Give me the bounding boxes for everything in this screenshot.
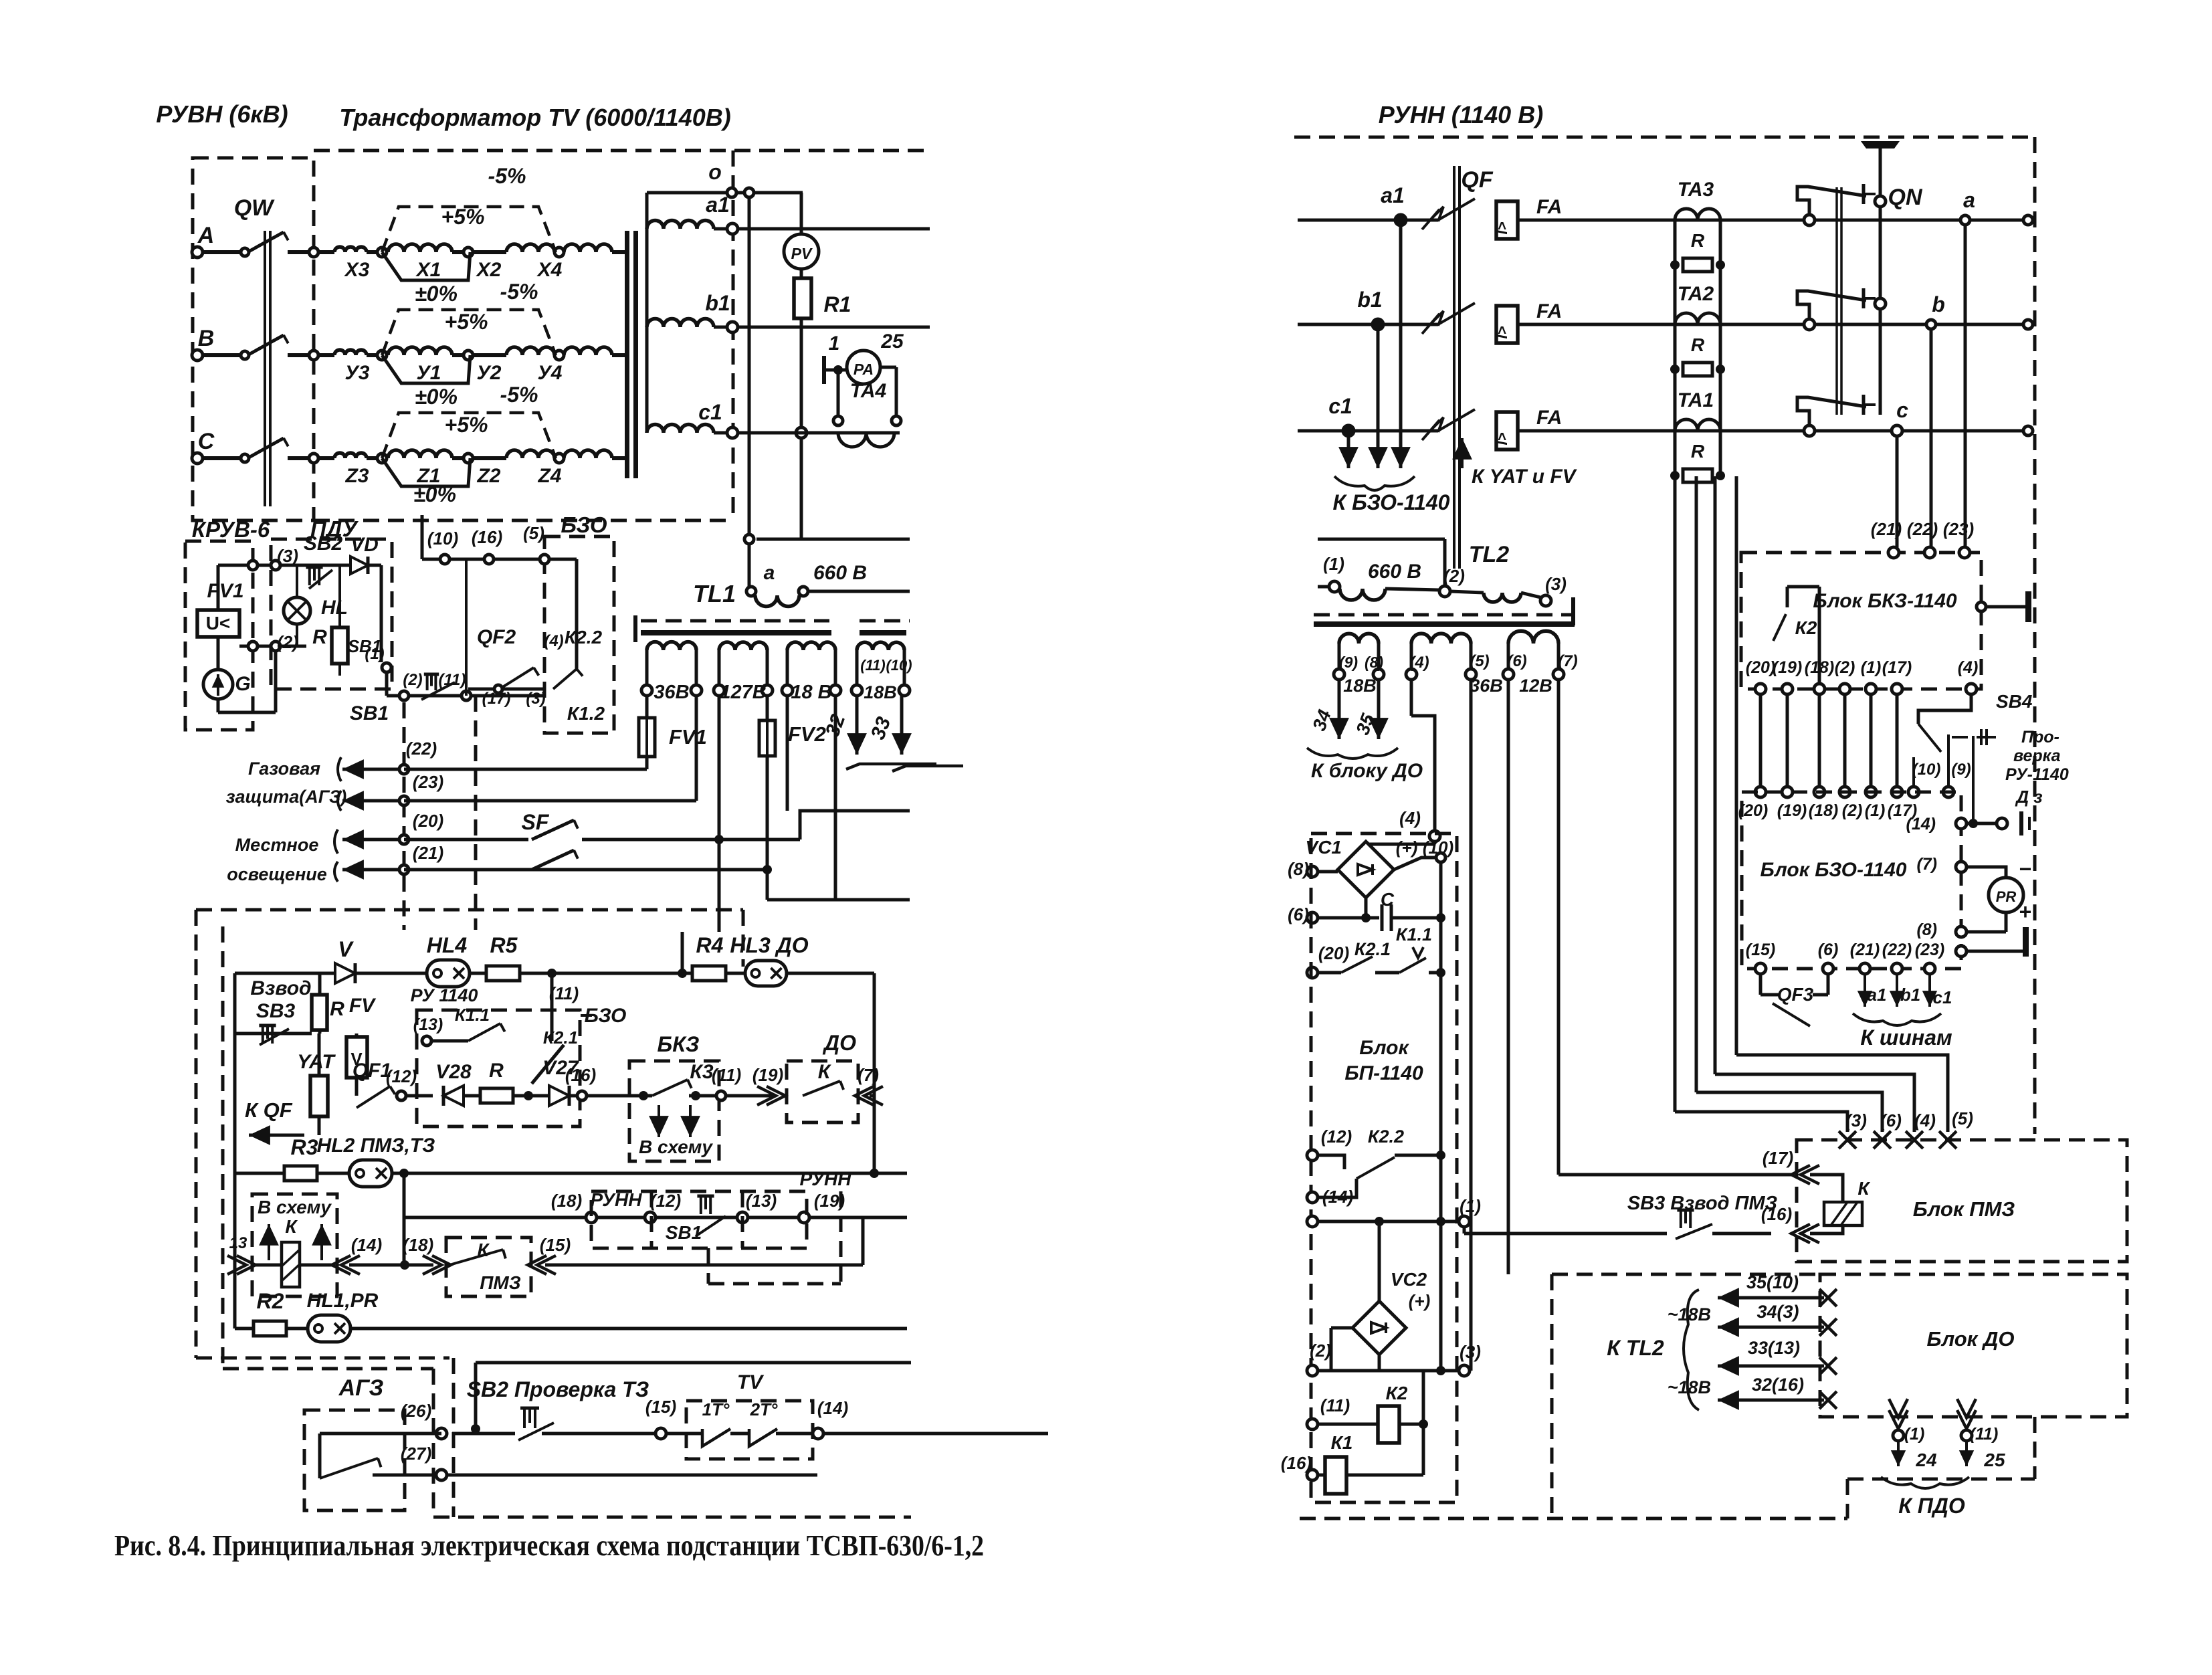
svg-text:25: 25: [880, 330, 904, 353]
svg-text:24: 24: [1915, 1450, 1937, 1470]
svg-text:1: 1: [829, 332, 840, 355]
svg-text:(6): (6): [1818, 941, 1839, 959]
svg-text:SF: SF: [522, 810, 550, 834]
svg-text:К1.2: К1.2: [567, 703, 605, 724]
svg-text:TL2: TL2: [1469, 542, 1510, 567]
svg-text:К блоку ДО: К блоку ДО: [1311, 760, 1423, 782]
svg-text:(21): (21): [413, 843, 443, 863]
svg-text:(1): (1): [365, 645, 384, 663]
svg-text:Блок ДО: Блок ДО: [1927, 1327, 2015, 1351]
svg-text:а1: а1: [1868, 985, 1887, 1005]
svg-text:Местное: Местное: [235, 835, 319, 855]
svg-text:(10): (10): [1912, 761, 1941, 779]
svg-text:c: c: [1896, 398, 1908, 422]
svg-text:РУ 1140: РУ 1140: [411, 985, 478, 1005]
svg-text:(7): (7): [858, 1065, 879, 1085]
svg-text:(14): (14): [351, 1235, 382, 1255]
svg-text:B: B: [198, 326, 215, 351]
svg-text:(5): (5): [523, 523, 544, 543]
svg-text:БП-1140: БП-1140: [1344, 1062, 1423, 1084]
svg-text:33(13): 33(13): [1748, 1338, 1800, 1358]
svg-text:(5): (5): [1952, 1108, 1973, 1128]
svg-text:(1): (1): [1323, 554, 1344, 574]
svg-text:18 В: 18 В: [791, 682, 831, 703]
svg-text:(22): (22): [1882, 941, 1912, 959]
svg-text:FA: FA: [1536, 407, 1562, 429]
svg-text:(18): (18): [551, 1191, 582, 1211]
svg-text:(5): (5): [1470, 652, 1489, 670]
svg-text:12В: 12В: [1519, 676, 1552, 696]
svg-text:К1: К1: [1331, 1432, 1353, 1453]
svg-text:b1: b1: [1357, 288, 1382, 312]
svg-text:(11): (11): [860, 657, 886, 674]
svg-text:(21): (21): [1850, 941, 1880, 959]
svg-text:(9): (9): [1339, 654, 1358, 671]
svg-text:Газовая: Газовая: [248, 759, 320, 779]
svg-text:К: К: [285, 1216, 298, 1237]
svg-text:(4): (4): [544, 632, 563, 650]
svg-text:TA1: TA1: [1678, 389, 1714, 411]
svg-text:(3): (3): [1545, 574, 1567, 594]
svg-text:К3: К3: [690, 1061, 713, 1083]
svg-text:(11): (11): [1970, 1425, 1999, 1444]
svg-text:-5%: -5%: [488, 164, 526, 188]
svg-text:a1: a1: [706, 193, 730, 217]
svg-text:К2: К2: [1795, 617, 1817, 638]
svg-text:освещение: освещение: [227, 864, 327, 884]
svg-text:(12): (12): [1321, 1126, 1352, 1147]
svg-text:I>: I>: [1494, 326, 1510, 338]
svg-text:К QF: К QF: [245, 1098, 293, 1122]
svg-text:(+): (+): [1396, 837, 1418, 858]
svg-text:FV2: FV2: [788, 722, 826, 746]
svg-text:(13): (13): [746, 1191, 777, 1211]
svg-text:(27): (27): [401, 1444, 431, 1464]
svg-text:У1: У1: [416, 362, 441, 384]
svg-text:R1: R1: [824, 292, 851, 316]
svg-text:а: а: [764, 562, 775, 584]
svg-text:(2): (2): [403, 671, 422, 689]
svg-text:(2): (2): [1310, 1341, 1331, 1361]
svg-text:(16): (16): [1281, 1453, 1312, 1473]
svg-text:b1: b1: [1900, 985, 1920, 1005]
svg-text:HL4: HL4: [427, 933, 468, 957]
svg-text:Z2: Z2: [476, 465, 500, 487]
svg-text:РУВН (6кВ): РУВН (6кВ): [156, 100, 288, 128]
svg-text:QW: QW: [234, 195, 275, 221]
svg-text:К YAT и FV: К YAT и FV: [1472, 466, 1578, 488]
svg-text:V: V: [338, 937, 354, 961]
svg-text:Блок БЗО-1140: Блок БЗО-1140: [1761, 859, 1907, 881]
svg-text:ПМЗ: ПМЗ: [480, 1272, 520, 1293]
svg-text:TA4: TA4: [850, 380, 887, 402]
svg-text:верка: верка: [2013, 747, 2061, 765]
svg-text:Взвод: Взвод: [250, 977, 311, 999]
svg-text:К1.1: К1.1: [455, 1005, 490, 1025]
svg-text:АГЗ: АГЗ: [338, 1375, 384, 1401]
svg-text:БКЗ: БКЗ: [658, 1032, 700, 1056]
svg-text:РУ-1140: РУ-1140: [2005, 765, 2069, 784]
svg-text:c1: c1: [698, 400, 722, 424]
svg-text:PA: PA: [853, 361, 874, 378]
svg-text:SB1: SB1: [666, 1222, 702, 1243]
svg-text:(26): (26): [401, 1401, 431, 1421]
svg-text:(1): (1): [1865, 801, 1886, 820]
svg-text:КРУВ-6: КРУВ-6: [192, 517, 270, 542]
svg-text:SB1: SB1: [350, 702, 389, 724]
svg-text:X3: X3: [344, 259, 370, 281]
svg-text:18В: 18В: [864, 682, 897, 702]
svg-text:(1): (1): [1460, 1196, 1481, 1216]
svg-text:X4: X4: [536, 259, 563, 281]
svg-text:−: −: [2019, 857, 2031, 881]
svg-text:(7): (7): [1916, 855, 1937, 874]
svg-text:1Т°: 1Т°: [702, 1399, 730, 1419]
svg-text:V28: V28: [435, 1061, 472, 1083]
svg-text:FV1: FV1: [669, 725, 707, 749]
svg-text:(20): (20): [413, 811, 443, 831]
svg-text:(1): (1): [1904, 1425, 1925, 1444]
svg-text:(10): (10): [886, 657, 912, 674]
svg-text:a: a: [1963, 188, 1975, 212]
svg-text:В схему: В схему: [639, 1137, 713, 1157]
svg-text:A: A: [197, 223, 215, 248]
svg-text:QF3: QF3: [1777, 984, 1814, 1005]
svg-text:(12): (12): [386, 1066, 417, 1086]
svg-text:(18): (18): [1805, 658, 1834, 677]
svg-text:(20): (20): [1738, 801, 1768, 820]
svg-text:(12): (12): [650, 1191, 681, 1211]
svg-text:РУНН: РУНН: [799, 1169, 851, 1189]
svg-text:(10): (10): [427, 528, 458, 549]
svg-text:TA2: TA2: [1678, 283, 1714, 305]
svg-text:(11): (11): [439, 671, 466, 689]
svg-text:ДО: ДО: [822, 1031, 856, 1055]
svg-text:(+): (+): [1409, 1291, 1431, 1311]
svg-text:VC2: VC2: [1391, 1269, 1427, 1290]
svg-text:R: R: [1691, 441, 1705, 462]
svg-text:РУНН (1140 В): РУНН (1140 В): [1379, 101, 1543, 128]
svg-text:(11): (11): [1320, 1395, 1350, 1415]
svg-text:FV1: FV1: [207, 580, 243, 602]
svg-text:HL2 ПМЗ,ТЗ: HL2 ПМЗ,ТЗ: [317, 1135, 435, 1157]
svg-text:(16): (16): [565, 1065, 596, 1085]
svg-text:К БЗО-1140: К БЗО-1140: [1333, 490, 1450, 514]
svg-text:I>: I>: [1494, 221, 1510, 234]
svg-text:TL1: TL1: [693, 580, 736, 607]
svg-text:защита(АГЗ): защита(АГЗ): [226, 787, 347, 807]
svg-text:X1: X1: [415, 259, 441, 281]
svg-text:(2): (2): [1842, 801, 1863, 820]
svg-text:(3): (3): [526, 690, 545, 708]
svg-text:PR: PR: [1996, 888, 2017, 905]
svg-text:R: R: [489, 1060, 504, 1082]
svg-text:(19): (19): [1773, 658, 1802, 677]
svg-text:(4): (4): [1409, 654, 1429, 672]
svg-text:(6): (6): [1880, 1110, 1902, 1130]
svg-text:HL: HL: [321, 597, 348, 619]
svg-text:(19): (19): [752, 1065, 783, 1085]
svg-text:(16): (16): [472, 527, 502, 547]
svg-text:34(3): 34(3): [1756, 1302, 1799, 1322]
svg-text:(17): (17): [1763, 1148, 1793, 1168]
svg-text:(2): (2): [277, 632, 298, 652]
svg-text:К: К: [818, 1061, 832, 1083]
svg-text:+5%: +5%: [441, 205, 485, 229]
svg-text:К: К: [1857, 1178, 1870, 1199]
svg-text:(22): (22): [406, 738, 437, 759]
svg-text:VD: VD: [350, 534, 379, 556]
svg-text:Трансформатор TV (6000/1140В): Трансформатор TV (6000/1140В): [339, 104, 730, 131]
svg-text:(2): (2): [1835, 658, 1855, 677]
svg-text:36В: 36В: [1470, 676, 1503, 696]
svg-text:QN: QN: [1888, 185, 1923, 210]
svg-text:o: o: [708, 160, 722, 184]
svg-text:(14): (14): [1906, 815, 1936, 833]
svg-text:(14): (14): [817, 1398, 848, 1418]
svg-text:(4): (4): [1958, 658, 1979, 677]
svg-text:+5%: +5%: [445, 310, 488, 334]
svg-text:(9): (9): [1951, 761, 1971, 779]
svg-text:+: +: [2019, 900, 2031, 924]
svg-text:(23): (23): [413, 772, 443, 792]
svg-text:G: G: [235, 673, 250, 695]
svg-text:Рис. 8.4. Принципиальная элек: Рис. 8.4. Принципиальная электрическая с…: [114, 1529, 984, 1562]
svg-text:25: 25: [1983, 1450, 2005, 1470]
svg-text:К ПДО: К ПДО: [1898, 1494, 1965, 1518]
svg-text:R3: R3: [291, 1135, 318, 1159]
svg-text:±0%: ±0%: [415, 282, 458, 306]
svg-text:К2.1: К2.1: [1354, 939, 1391, 959]
svg-text:Блок БКЗ-1140: Блок БКЗ-1140: [1813, 590, 1957, 612]
svg-text:127В: 127В: [720, 682, 766, 703]
svg-text:(17): (17): [482, 690, 511, 708]
svg-text:К шинам: К шинам: [1860, 1025, 1952, 1050]
svg-text:(15): (15): [645, 1397, 676, 1417]
svg-text:R4: R4: [696, 933, 724, 957]
svg-text:(6): (6): [1288, 904, 1309, 924]
svg-text:±0%: ±0%: [415, 385, 458, 409]
svg-text:БЗО: БЗО: [561, 512, 607, 537]
svg-text:БЗО: БЗО: [585, 1005, 627, 1027]
svg-text:(20): (20): [1318, 943, 1349, 963]
svg-text:±0%: ±0%: [413, 482, 456, 506]
svg-text:(15): (15): [1746, 941, 1775, 959]
svg-text:18В: 18В: [1343, 676, 1377, 696]
svg-text:К2.2: К2.2: [1368, 1126, 1404, 1147]
svg-text:a1: a1: [1381, 183, 1405, 207]
svg-text:FA: FA: [1536, 196, 1562, 218]
svg-text:(4): (4): [1914, 1110, 1936, 1130]
svg-text:(17): (17): [1882, 658, 1912, 677]
svg-text:SB3: SB3: [256, 1000, 296, 1022]
svg-text:R: R: [330, 998, 344, 1020]
svg-text:YAT: YAT: [297, 1051, 336, 1073]
svg-text:У2: У2: [476, 362, 501, 384]
svg-text:C: C: [198, 429, 215, 454]
svg-text:R: R: [312, 626, 327, 648]
svg-text:(3): (3): [277, 546, 298, 566]
svg-text:(22): (22): [1907, 519, 1938, 539]
svg-text:Z3: Z3: [344, 465, 369, 487]
svg-text:QF2: QF2: [477, 626, 516, 648]
svg-text:QF: QF: [1461, 167, 1493, 193]
svg-text:R: R: [1691, 230, 1705, 251]
svg-text:К1.1: К1.1: [1396, 924, 1432, 945]
svg-text:FA: FA: [1536, 300, 1562, 322]
svg-text:(20): (20): [1746, 658, 1775, 677]
svg-text:(8): (8): [1365, 654, 1383, 671]
svg-text:(3): (3): [1460, 1342, 1481, 1362]
svg-text:(2): (2): [1443, 566, 1465, 586]
svg-text:HL3 ДО: HL3 ДО: [730, 933, 808, 957]
svg-text:+5%: +5%: [445, 413, 488, 437]
svg-text:(11): (11): [712, 1065, 741, 1085]
svg-text:(8): (8): [1288, 859, 1309, 879]
svg-text:К2.2: К2.2: [565, 627, 603, 648]
svg-text:R5: R5: [490, 933, 518, 957]
svg-text:(23): (23): [1943, 519, 1974, 539]
svg-text:36В: 36В: [653, 682, 689, 703]
svg-text:Блок ПМЗ: Блок ПМЗ: [1913, 1197, 2015, 1221]
svg-text:У4: У4: [537, 362, 562, 384]
svg-text:(21): (21): [1871, 519, 1902, 539]
svg-text:(8): (8): [1916, 920, 1937, 939]
svg-text:660 В: 660 В: [1368, 561, 1421, 583]
svg-text:Блок: Блок: [1359, 1037, 1409, 1059]
svg-text:У3: У3: [344, 362, 369, 384]
svg-text:В схему: В схему: [258, 1197, 332, 1217]
svg-text:-5%: -5%: [500, 280, 538, 304]
svg-text:X2: X2: [476, 259, 502, 281]
svg-text:32(16): 32(16): [1752, 1375, 1804, 1395]
svg-text:(23): (23): [1915, 941, 1944, 959]
svg-text:SB2: SB2: [304, 532, 343, 555]
svg-text:SB4: SB4: [1996, 691, 2033, 712]
svg-text:Д з: Д з: [2015, 787, 2042, 807]
svg-text:HL1,PR: HL1,PR: [307, 1290, 379, 1312]
svg-text:SB3 Взвод ПМЗ: SB3 Взвод ПМЗ: [1627, 1193, 1778, 1214]
svg-text:13: 13: [229, 1234, 247, 1252]
svg-text:с1: с1: [1933, 987, 1952, 1007]
svg-text:R: R: [1691, 334, 1705, 355]
svg-text:R2: R2: [257, 1289, 284, 1313]
svg-text:TV: TV: [737, 1371, 765, 1393]
svg-text:(19): (19): [1777, 801, 1807, 820]
svg-text:(3): (3): [1845, 1110, 1867, 1130]
svg-text:FV: FV: [349, 995, 377, 1017]
svg-text:(18): (18): [1809, 801, 1838, 820]
svg-text:SB2 Проверка ТЗ: SB2 Проверка ТЗ: [467, 1377, 649, 1401]
svg-text:Про-: Про-: [2021, 728, 2059, 747]
svg-text:(13): (13): [413, 1015, 443, 1034]
svg-text:(15): (15): [540, 1235, 571, 1255]
svg-text:(4): (4): [1399, 808, 1421, 828]
svg-text:-5%: -5%: [500, 383, 538, 407]
svg-text:c1: c1: [1328, 394, 1352, 418]
svg-text:TA3: TA3: [1678, 179, 1714, 201]
svg-text:(6): (6): [1507, 652, 1526, 670]
svg-text:(1): (1): [1861, 658, 1882, 677]
svg-text:К2: К2: [1386, 1383, 1408, 1403]
svg-text:660 В: 660 В: [813, 562, 867, 584]
svg-text:К2.1: К2.1: [543, 1027, 578, 1048]
svg-text:b1: b1: [705, 291, 730, 315]
svg-text:I>: I>: [1494, 432, 1510, 445]
svg-text:PV: PV: [791, 245, 813, 262]
svg-text:К TL2: К TL2: [1607, 1336, 1664, 1360]
svg-text:(18): (18): [403, 1235, 433, 1255]
svg-text:(7): (7): [1558, 652, 1577, 670]
svg-text:2Т°: 2Т°: [750, 1399, 778, 1419]
svg-text:Z4: Z4: [537, 465, 561, 487]
svg-text:b: b: [1932, 292, 1945, 316]
svg-text:U<: U<: [206, 613, 231, 633]
